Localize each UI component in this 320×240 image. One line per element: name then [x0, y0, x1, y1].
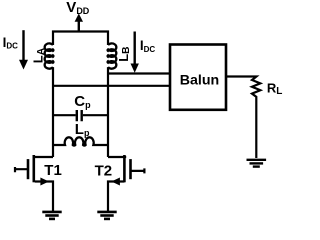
svg-text:T1: T1 [44, 162, 62, 179]
ground T1 [42, 212, 61, 219]
svg-text:LB: LB [116, 46, 132, 61]
svg-text:RL: RL [267, 80, 283, 97]
arrow IDC right [133, 32, 135, 65]
inductor LA [45, 43, 54, 68]
balun box U1 [170, 45, 226, 110]
wire right rail mid [108, 67, 126, 157]
inductor LB [108, 43, 117, 68]
transistor T1 channel bar [32, 155, 35, 182]
transistor T1 source wire [35, 182, 53, 212]
inductor Lp [53, 137, 108, 145]
svg-text:Balun: Balun [180, 73, 219, 89]
transistor T2 gate lead [132, 168, 145, 173]
svg-text:IDC: IDC [140, 38, 156, 54]
svg-text:VDD: VDD [66, 0, 90, 16]
svg-text:IDC: IDC [3, 35, 19, 51]
ground T2 [97, 212, 116, 219]
svg-text:T2: T2 [95, 162, 113, 179]
wire balun upper [108, 72, 170, 74]
arrow IDC left [22, 30, 24, 61]
transistor T1 gate lead [15, 167, 27, 172]
svg-text:LA: LA [31, 47, 47, 63]
resistor RL [226, 77, 260, 159]
arrow VDD [78, 20, 80, 31]
transistor T2 channel bar [123, 155, 126, 182]
wire balun lower [53, 85, 170, 87]
capacitor Cp wires [53, 114, 108, 116]
capacitor Cp plates [77, 110, 82, 121]
arrow T1 source [40, 178, 49, 186]
wire left rail mid [35, 67, 53, 157]
wire top rail VDD [53, 32, 108, 46]
svg-text:Lp: Lp [75, 121, 90, 138]
transistor T1 gate bar [27, 159, 30, 179]
arrow T2 source [111, 178, 120, 186]
svg-text:Cp: Cp [74, 93, 91, 110]
transistor T2 source wire [108, 182, 124, 212]
ground RL [247, 160, 267, 167]
transistor T2 gate bar [129, 159, 132, 179]
